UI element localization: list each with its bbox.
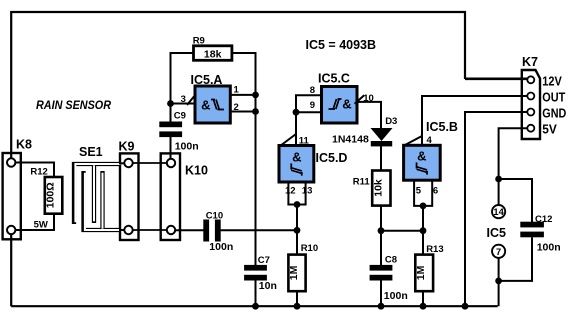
svg-text:1: 1 <box>234 84 240 95</box>
svg-text:IC5.C: IC5.C <box>318 72 350 86</box>
svg-text:IC5 = 4093B: IC5 = 4093B <box>306 38 377 52</box>
svg-text:IC5: IC5 <box>487 226 507 240</box>
svg-text:R11: R11 <box>353 177 371 188</box>
svg-text:2: 2 <box>234 102 239 113</box>
svg-text:R12: R12 <box>30 166 47 177</box>
svg-text:OUT: OUT <box>542 89 565 104</box>
svg-text:100Ω: 100Ω <box>45 182 57 208</box>
svg-text:IC5.B: IC5.B <box>426 120 458 134</box>
svg-text:1M: 1M <box>415 265 427 280</box>
svg-text:12: 12 <box>285 186 296 197</box>
svg-text:SE1: SE1 <box>79 145 103 159</box>
svg-text:11: 11 <box>299 135 310 146</box>
svg-text:100n: 100n <box>537 241 561 253</box>
svg-text:13: 13 <box>302 186 313 197</box>
svg-text:C9: C9 <box>174 110 186 121</box>
svg-text:18k: 18k <box>204 49 222 61</box>
svg-text:100n: 100n <box>209 241 233 253</box>
svg-text:12V: 12V <box>542 73 562 88</box>
svg-text:R13: R13 <box>426 244 443 255</box>
svg-text:K7: K7 <box>522 55 538 69</box>
svg-text:IC5.A: IC5.A <box>191 73 223 87</box>
svg-text:4: 4 <box>427 135 433 146</box>
svg-text:D3: D3 <box>385 116 397 127</box>
svg-text:1M: 1M <box>288 265 300 280</box>
svg-text:R10: R10 <box>301 243 318 254</box>
svg-text:3: 3 <box>181 94 186 105</box>
svg-text:6: 6 <box>433 186 438 197</box>
svg-text:K8: K8 <box>16 138 32 152</box>
svg-text:&: & <box>417 149 426 164</box>
svg-text:10: 10 <box>363 93 374 104</box>
svg-text:C8: C8 <box>385 255 397 266</box>
svg-text:&: & <box>201 98 210 113</box>
svg-text:5: 5 <box>416 186 422 197</box>
svg-text:7: 7 <box>496 247 501 257</box>
svg-text:GND: GND <box>542 105 566 120</box>
svg-text:IC5.D: IC5.D <box>316 151 348 165</box>
svg-text:RAIN SENSOR: RAIN SENSOR <box>36 98 111 112</box>
svg-text:100n: 100n <box>384 290 408 302</box>
svg-text:10n: 10n <box>259 280 277 292</box>
svg-text:5W: 5W <box>34 220 48 231</box>
svg-text:10k: 10k <box>372 179 384 197</box>
svg-text:5V: 5V <box>542 122 557 137</box>
svg-text:R9: R9 <box>193 35 205 46</box>
svg-text:K10: K10 <box>185 164 208 178</box>
svg-text:C7: C7 <box>258 255 270 266</box>
svg-text:&: & <box>292 150 301 165</box>
svg-text:9: 9 <box>310 100 315 111</box>
svg-text:1N4148: 1N4148 <box>332 133 369 145</box>
svg-text:C12: C12 <box>535 214 552 225</box>
svg-text:8: 8 <box>310 85 315 96</box>
svg-text:&: & <box>342 97 351 112</box>
svg-text:K9: K9 <box>119 140 135 154</box>
svg-text:14: 14 <box>493 207 504 217</box>
svg-text:100n: 100n <box>175 141 199 153</box>
svg-text:C10: C10 <box>206 211 223 222</box>
